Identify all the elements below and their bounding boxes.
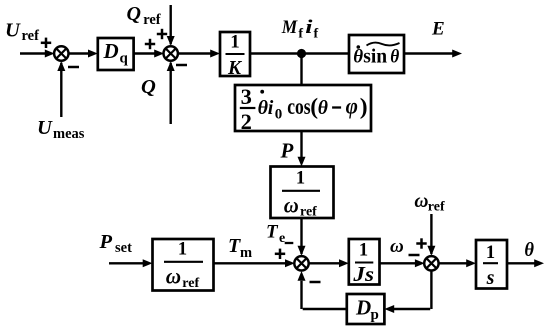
svg-text:D: D [355, 296, 371, 320]
svg-text:i: i [305, 17, 313, 38]
svg-text:U: U [37, 117, 53, 139]
svg-text:θ: θ [353, 47, 363, 68]
svg-text:K: K [227, 58, 243, 79]
svg-text:0: 0 [275, 106, 283, 122]
svg-text:f: f [314, 27, 319, 42]
svg-text:T: T [266, 222, 279, 243]
svg-text:θ: θ [390, 47, 399, 68]
svg-text:θ: θ [318, 97, 329, 119]
svg-text:set: set [115, 240, 132, 256]
svg-text:cos: cos [287, 94, 310, 119]
svg-text:e: e [279, 231, 285, 246]
svg-text:3: 3 [241, 84, 252, 109]
svg-text:i: i [268, 97, 274, 119]
svg-text:s: s [486, 267, 495, 289]
svg-text:2: 2 [241, 109, 252, 134]
svg-text:D: D [103, 39, 119, 63]
svg-text:E: E [431, 19, 445, 40]
svg-text:Q: Q [127, 3, 141, 25]
svg-text:P: P [280, 139, 294, 163]
svg-text:ω: ω [414, 191, 428, 212]
svg-text:φ: φ [346, 94, 358, 120]
svg-text:1: 1 [178, 240, 187, 260]
svg-text:1: 1 [359, 241, 368, 261]
svg-text:1: 1 [486, 243, 495, 263]
svg-text:U: U [5, 19, 21, 41]
svg-text:1: 1 [230, 32, 240, 53]
svg-text:ω: ω [390, 236, 404, 257]
svg-text:): ) [360, 94, 368, 120]
svg-text:ref: ref [182, 276, 199, 291]
svg-text:M: M [281, 17, 298, 38]
svg-text:m: m [240, 245, 252, 261]
svg-text:P: P [99, 231, 113, 253]
svg-text:f: f [298, 27, 303, 42]
svg-text:q: q [120, 51, 129, 67]
svg-text:ref: ref [143, 12, 161, 28]
svg-text:sin: sin [363, 47, 387, 68]
svg-text:ω: ω [166, 264, 181, 289]
svg-text:Q: Q [141, 76, 156, 98]
svg-text:1: 1 [296, 169, 305, 189]
svg-text:ref: ref [22, 28, 40, 44]
svg-text:θ: θ [524, 240, 534, 261]
svg-text:p: p [371, 307, 379, 323]
svg-text:ref: ref [428, 200, 445, 215]
svg-text:ref: ref [300, 205, 317, 220]
svg-text:meas: meas [53, 126, 85, 142]
svg-text:ω: ω [284, 193, 299, 218]
svg-text:Js: Js [352, 262, 374, 286]
